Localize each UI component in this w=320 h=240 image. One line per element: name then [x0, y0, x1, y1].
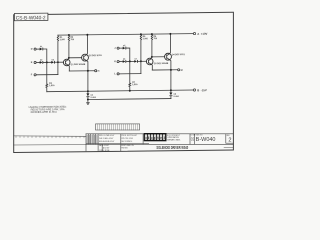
parts list tick marks — [16, 136, 84, 138]
node junction R2 top on rail — [68, 34, 70, 36]
diode D3 — [51, 61, 55, 64]
wire base node — [126, 60, 134, 62]
terminal B -15V — [193, 89, 195, 91]
node junction Q3 collector / Q4 base — [151, 56, 153, 58]
node +10V rail — [58, 34, 193, 36]
title block narrow cells vertical text marks — [87, 135, 98, 144]
svg-text:DEC FORM 10: DEC FORM 10 — [121, 141, 132, 143]
svg-text:Q2 DEC 6761: Q2 DEC 6761 — [89, 55, 103, 57]
svg-text:CHK. R.HILL 4-2-67: CHK. R.HILL 4-2-67 — [99, 138, 113, 140]
svg-text:1,500: 1,500 — [132, 84, 138, 86]
svg-text:D1: D1 — [40, 46, 42, 48]
svg-text:CS-B-W040-2: CS-B-W040-2 — [16, 15, 46, 21]
revision strip table — [96, 124, 140, 130]
svg-text:D: D — [31, 48, 33, 51]
note text block — [29, 106, 67, 114]
diode D8 — [169, 92, 172, 96]
wire D4 to ground bus — [87, 97, 89, 100]
node junction — [129, 60, 131, 62]
transistor Q4 — [165, 53, 172, 60]
svg-text:K: K — [114, 60, 116, 63]
terminal A +10V — [193, 32, 195, 34]
wire input F to node — [36, 74, 58, 76]
wire output line — [69, 70, 94, 72]
svg-text:SOLENOID DRIVER W040: SOLENOID DRIVER W040 — [156, 145, 188, 150]
svg-text:3,000: 3,000 — [143, 38, 149, 40]
resistor R5 (rail to base node to L) — [140, 34, 141, 73]
wire output line — [152, 69, 177, 71]
resistor R6 (rail to Q3 collector) — [151, 34, 152, 57]
diode D1 — [40, 48, 44, 51]
svg-text:1,500: 1,500 — [49, 85, 55, 87]
node junction emitter/output — [170, 69, 172, 71]
svg-text:B-W040: B-W040 — [196, 137, 216, 143]
node junction on -15 crossing — [170, 89, 172, 91]
wire Q1 emitter to output line — [68, 65, 70, 71]
svg-text:D2: D2 — [40, 60, 42, 62]
title block frame — [86, 134, 233, 151]
wire Q3 emitter to output line — [151, 64, 153, 70]
svg-text:D5: D5 — [123, 45, 125, 47]
sheet border frame — [14, 12, 234, 152]
wire to Q3 base — [138, 60, 147, 62]
wire Q2 collector to rail — [86, 35, 87, 55]
diode D6 — [123, 60, 127, 63]
wire Q4 collector to rail — [169, 34, 170, 54]
resistor R2 (rail to Q1 collector) — [68, 35, 69, 58]
svg-text:DIODES ARE D-664: DIODES ARE D-664 — [31, 111, 58, 114]
svg-text:H: H — [98, 70, 100, 73]
node junction R6 top on rail — [151, 33, 153, 35]
diode D2 — [40, 61, 44, 64]
svg-text:STD. TEL 2-209: STD. TEL 2-209 — [121, 138, 133, 140]
svg-text:CS: CS — [191, 137, 195, 142]
diode D4 — [86, 93, 89, 97]
node junction — [57, 61, 59, 63]
svg-text:D6: D6 — [123, 59, 125, 61]
wire collector diagonal into Q3 — [151, 57, 152, 59]
svg-text:Q4 DEC 6761: Q4 DEC 6761 — [172, 53, 186, 56]
node junction R7 on -15 rail — [129, 90, 131, 92]
wire — [126, 48, 130, 61]
wire base node — [43, 61, 52, 63]
title block divider band — [86, 142, 149, 145]
svg-text:DRN. J.LOWE 4-1-67: DRN. J.LOWE 4-1-67 — [99, 135, 114, 137]
parts list strip — [14, 136, 87, 145]
svg-text:2: 2 — [228, 138, 231, 144]
svg-text:PDP-8/S: PDP-8/S — [121, 148, 127, 150]
wire D8 to ground bus — [170, 96, 172, 99]
svg-text:Q3 DEC 6534B: Q3 DEC 6534B — [154, 62, 169, 65]
wire — [43, 49, 47, 62]
node junction emitter/output — [87, 70, 89, 72]
svg-text:PROD. K.FITZ 4-8-67: PROD. K.FITZ 4-8-67 — [121, 135, 137, 137]
wire input L to node — [119, 73, 141, 75]
svg-text:3,000: 3,000 — [60, 39, 66, 41]
wire R2 node to Q2 base — [69, 57, 82, 59]
transistor Q2 — [82, 54, 89, 61]
drawing number box top-left — [14, 13, 48, 21]
resistor R1 (rail to base node to F) — [57, 35, 58, 74]
diode D7 — [134, 60, 138, 63]
wire — [119, 61, 123, 63]
diode D5 — [123, 47, 127, 50]
node junction — [140, 60, 142, 62]
node junction — [46, 61, 48, 63]
svg-text:B -15V: B -15V — [197, 88, 207, 92]
wire Q4 emitter down — [169, 59, 171, 92]
wire collector diagonal into Q1 — [68, 58, 69, 60]
node junction R5 top on rail — [140, 33, 142, 35]
ground symbol — [87, 99, 90, 104]
svg-text:D3: D3 — [52, 59, 54, 61]
node junction Q1 collector / Q2 base — [68, 57, 70, 59]
node junction Q4 collector on rail — [169, 33, 171, 35]
resistor R3 (base node to -15V) — [46, 62, 48, 91]
svg-text:M: M — [181, 69, 183, 72]
node junction Q2 collector on rail — [86, 34, 88, 36]
wire to Q1 base — [55, 61, 64, 63]
transistor Q1 — [63, 59, 70, 66]
svg-text:A +10V: A +10V — [197, 32, 207, 36]
svg-text:FIRST USED ON: FIRST USED ON — [121, 145, 134, 147]
svg-text:digital: digital — [145, 136, 165, 140]
wire — [119, 47, 123, 49]
wire ground bus — [88, 98, 171, 101]
node junction on -15 crossing — [87, 90, 89, 92]
wire — [36, 48, 40, 50]
drawing number cell — [191, 135, 232, 144]
wire Q2 emitter down — [86, 60, 88, 93]
terminal M output — [178, 69, 180, 71]
svg-text:Q1 DEC 6534B: Q1 DEC 6534B — [71, 63, 86, 66]
resistor R7 (base node to -15V) — [129, 61, 131, 90]
wire R6 node to Q4 base — [152, 56, 165, 58]
wire — [36, 61, 40, 63]
title block column texts — [99, 135, 137, 152]
node -15V rail — [47, 90, 194, 92]
svg-text:D7: D7 — [135, 58, 137, 60]
node junction ground — [87, 98, 89, 100]
terminal H output — [95, 70, 97, 72]
transistor Q3 — [146, 58, 153, 65]
svg-text:E Q U I P M E N T: E Q U I P M E N T — [167, 135, 180, 137]
logo company address — [167, 135, 181, 141]
logo digital — [144, 133, 167, 141]
